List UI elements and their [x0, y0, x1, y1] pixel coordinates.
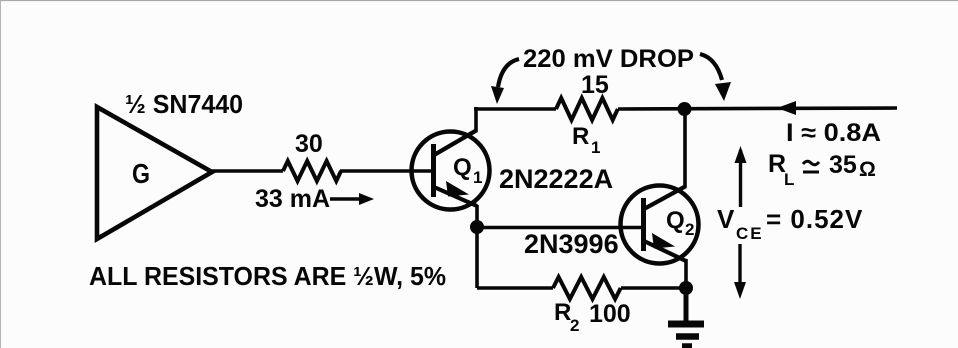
svg-text:1: 1	[473, 168, 482, 187]
svg-text:1: 1	[591, 138, 600, 157]
svg-text:2: 2	[570, 316, 579, 335]
wire node A down	[475, 227, 479, 288]
Q2 emitter arrowhead	[652, 233, 675, 249]
node A junction dot (Q1 emitter / Q2 base / R2)	[470, 220, 484, 234]
bottom wire to R2	[477, 286, 553, 290]
Q2 emitter stroke	[644, 241, 686, 261]
svg-text:2N2222A: 2N2222A	[499, 164, 613, 194]
Q2 emitter wire down	[684, 259, 688, 288]
svg-text:220 mV DROP: 220 mV DROP	[523, 45, 694, 73]
curved arrow right (220 mV DROP)	[700, 54, 722, 80]
svg-text:2N3996: 2N3996	[524, 229, 619, 259]
transistor Q2 circle	[621, 186, 699, 264]
svg-text:G: G	[132, 158, 150, 189]
svg-text:30: 30	[295, 130, 323, 158]
ground bar 1	[668, 321, 704, 328]
svg-text:Q: Q	[666, 207, 685, 234]
svg-text:L: L	[784, 170, 794, 189]
ground bar 3	[682, 343, 692, 348]
Q1 emitter arrowhead	[446, 181, 469, 197]
gate U1 triangle	[97, 107, 212, 239]
resistor R1 15	[556, 98, 618, 120]
Q1 collector wire up	[474, 107, 478, 131]
top rail right segment	[618, 108, 897, 109]
scan edge left	[0, 0, 2, 348]
top rail left segment	[474, 107, 556, 111]
svg-text:CE: CE	[736, 224, 764, 243]
svg-text:Ω: Ω	[859, 158, 876, 181]
wire R2 to emitter node	[621, 286, 686, 290]
Q1 base bar	[431, 144, 436, 197]
svg-text:ALL RESISTORS ARE ½W, 5%: ALL RESISTORS ARE ½W, 5%	[89, 261, 446, 291]
wire gate output to R30	[210, 169, 283, 173]
resistor 30	[283, 161, 341, 181]
Q1 collector stroke	[434, 130, 477, 155]
ground stem	[684, 288, 689, 324]
svg-text:V: V	[717, 204, 735, 234]
svg-text:2: 2	[685, 220, 694, 239]
scan edge top	[0, 0, 958, 2]
Q1 emitter wire down	[475, 205, 479, 227]
Vce lower arrow	[738, 244, 741, 292]
svg-text:I ≈ 0.8A: I ≈ 0.8A	[786, 119, 881, 147]
wire R30 to Q1 base	[340, 169, 433, 173]
curved arrow left (220 mV DROP)	[498, 59, 519, 87]
current arrowhead on rail	[777, 101, 796, 115]
RL >= glyph (tilde over bar)	[803, 161, 819, 165]
33 mA arrow	[330, 197, 362, 200]
ground bar 2	[676, 333, 699, 340]
emitter junction dot	[679, 281, 693, 295]
Q1 emitter stroke	[434, 187, 477, 206]
transistor Q1 circle	[412, 132, 490, 210]
svg-text:½ SN7440: ½ SN7440	[125, 89, 243, 119]
Q2 base wire from node A	[477, 226, 643, 230]
resistor R2 100	[553, 277, 621, 299]
wire Q2 collector up to rail	[683, 109, 687, 187]
svg-text:Q: Q	[453, 154, 472, 181]
Q2 base bar	[641, 198, 646, 251]
svg-text:33 mA: 33 mA	[255, 185, 330, 213]
Q2 collector stroke	[644, 186, 686, 209]
svg-text:= 0.52V: = 0.52V	[766, 204, 863, 234]
svg-text:R: R	[572, 123, 589, 150]
Vce upper arrow	[739, 150, 742, 207]
svg-text:100: 100	[589, 300, 631, 328]
svg-text:R: R	[554, 299, 571, 326]
svg-text:15: 15	[581, 71, 609, 99]
svg-text:35: 35	[829, 151, 857, 179]
junction node rail/Q2 collector	[678, 102, 692, 116]
